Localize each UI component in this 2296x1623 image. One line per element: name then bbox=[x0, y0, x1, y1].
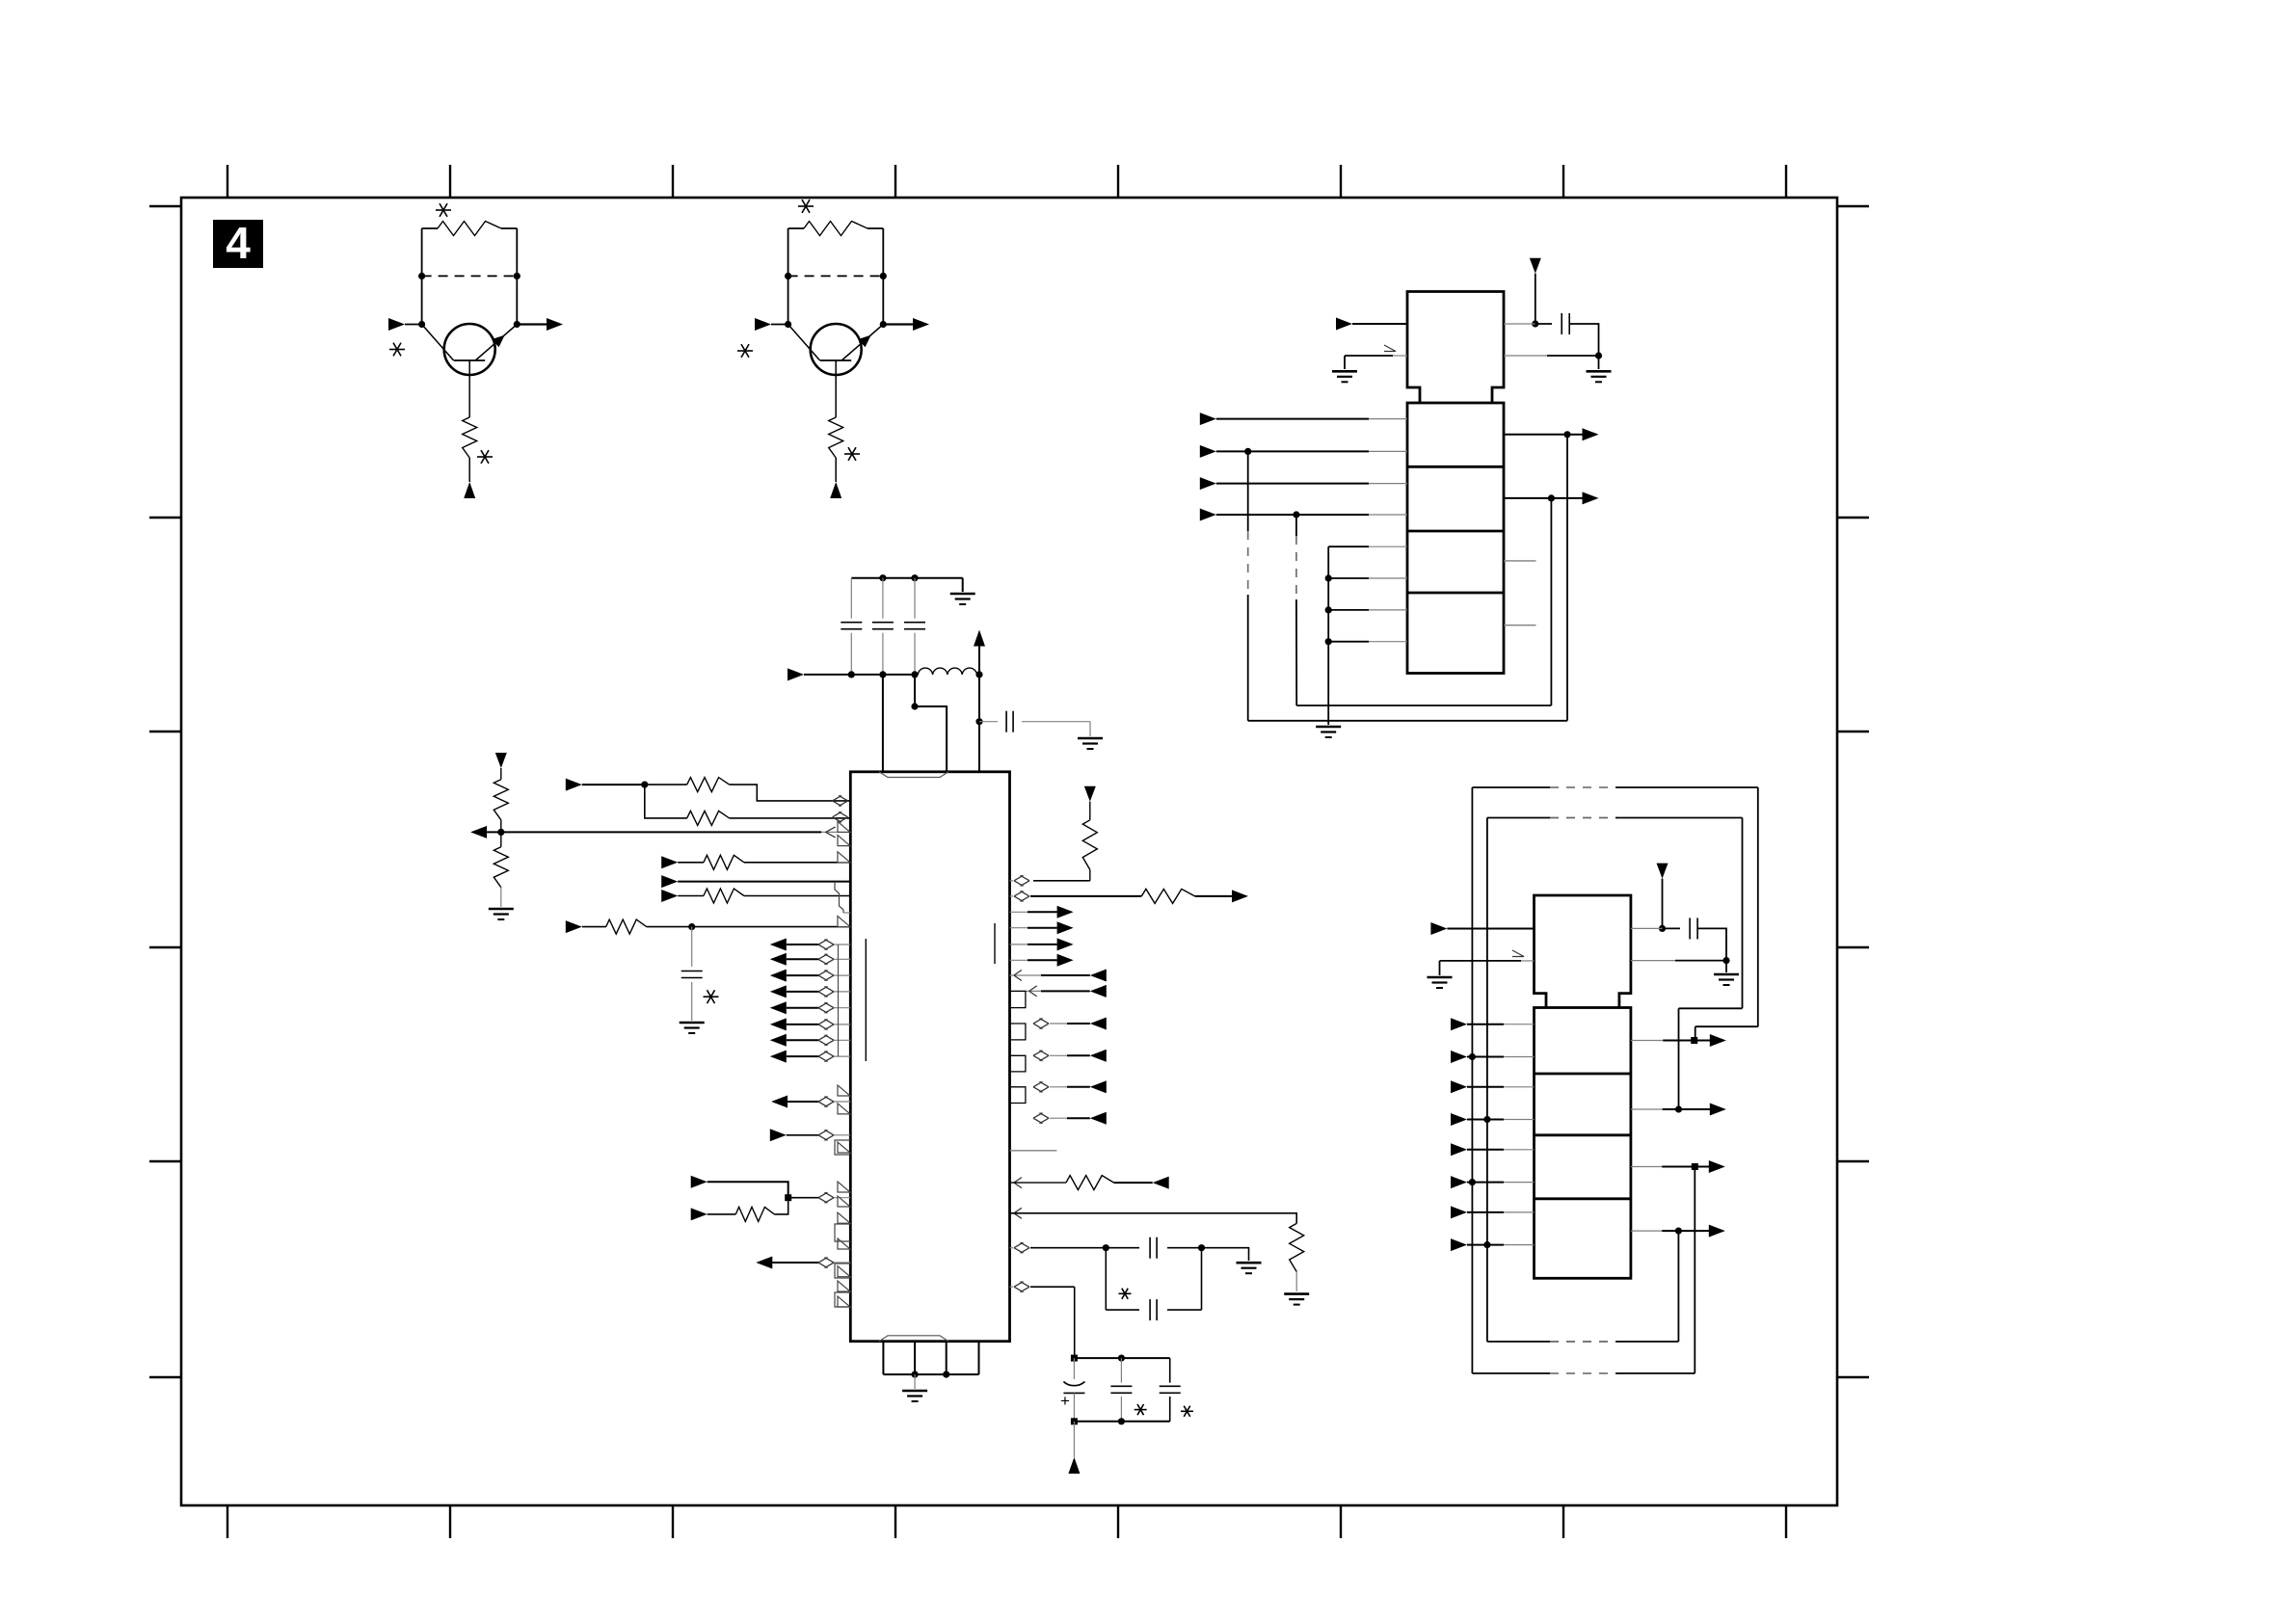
right input arrows stub rows bbox=[1010, 970, 1107, 998]
supply filter rail with electrolytic C6 and C7 C8 bbox=[1060, 1355, 1193, 1425]
CN1 input arrows (4) bbox=[1200, 412, 1407, 520]
CN2 right pin1 with capacitor C10 bbox=[1631, 918, 1730, 964]
CN2 output 2 bbox=[1631, 1104, 1726, 1116]
connector CN1 plug body bbox=[1407, 292, 1504, 404]
CN2 inner wrap loop bbox=[1487, 818, 1743, 1343]
long wire to resistor R13 and ground bbox=[1010, 1208, 1310, 1304]
input arrow C direct bbox=[661, 875, 850, 888]
input arrow A with resistor pair bbox=[566, 778, 851, 826]
transistor Q1 with base resistor network bbox=[388, 203, 563, 498]
left output arrow row16 bbox=[771, 1085, 850, 1108]
pull-up resistor with supply arrow bbox=[1010, 786, 1098, 887]
left output arrow bus (8 rows) bbox=[770, 939, 851, 1063]
IC bottom ground pins bbox=[883, 1342, 978, 1378]
CN2 input arrows (8) bbox=[1451, 1018, 1535, 1251]
B+ arrow at IC top bbox=[974, 630, 985, 678]
bypass capacitor C4 to ground bbox=[979, 711, 1103, 749]
connector CN1 socket body bbox=[1407, 403, 1504, 674]
svg-text:4: 4 bbox=[226, 218, 251, 268]
CN2 right pin2 to ground bbox=[1631, 961, 1739, 985]
input arrow B with resistor bbox=[661, 852, 850, 870]
CN2 output 3 bbox=[1631, 1160, 1725, 1173]
CN2 left pin2 to ground bbox=[1428, 950, 1535, 988]
crystal capacitor network bbox=[1010, 1237, 1262, 1320]
B+ arrow bottom bbox=[1068, 1422, 1080, 1474]
wire VCC pin vertical bbox=[975, 675, 982, 772]
right output arrows (4 rows) bbox=[1010, 906, 1074, 967]
CN1 right pin2 to ground bbox=[1504, 356, 1612, 382]
CN1 output 1 with feedback wrap bbox=[1504, 428, 1599, 721]
svg-text:+: + bbox=[1060, 1392, 1070, 1410]
output with series resistor R11 bbox=[1010, 889, 1249, 903]
transistor Q2 with base resistor network bbox=[737, 200, 929, 498]
connector CN2 plug body bbox=[1535, 895, 1631, 1008]
connector CN2 socket body bbox=[1535, 1008, 1631, 1279]
CN1 input arrow pin1 bbox=[1336, 318, 1407, 331]
supply input arrow and bus bbox=[788, 668, 919, 680]
input arrow row17 bbox=[770, 1129, 851, 1141]
capacitor C5 to ground with asterisk bbox=[680, 927, 719, 1033]
CN2 output 4 bbox=[1631, 1225, 1725, 1237]
left output arrow row19 bbox=[756, 1257, 850, 1269]
CN1 ground bus for section3 bbox=[1316, 546, 1407, 737]
CN1 left pin2 to ground bbox=[1332, 345, 1407, 382]
inductor L1 bbox=[918, 668, 976, 675]
input pair with resistor R10 bbox=[691, 1176, 851, 1222]
IC U1 body bbox=[850, 772, 1009, 1342]
ground under IC bbox=[902, 1374, 927, 1401]
CN1 output 2 with feedback wrap bbox=[1504, 492, 1599, 705]
supply arrow CN1 bbox=[1530, 258, 1541, 328]
decoupling capacitor rail with C1 C2 C3 bbox=[841, 574, 962, 675]
right input with resistor R12 bbox=[1010, 1176, 1169, 1190]
CN1 right pin1 with capacitor C9 bbox=[1504, 313, 1602, 359]
CN1 outer wrap loop bbox=[1248, 451, 1567, 720]
input arrow D with resistor bbox=[661, 889, 850, 903]
CN2 outer wrap loop bbox=[1472, 787, 1757, 1373]
right stub row13 bbox=[1010, 1150, 1057, 1152]
voltage divider with supply arrow bbox=[489, 753, 514, 919]
left edge pin marks bbox=[835, 836, 850, 1307]
right input arrows (4 rows) bbox=[1033, 1018, 1107, 1125]
wire pin vertical 3 bbox=[911, 675, 947, 772]
supply arrow CN2 bbox=[1657, 864, 1669, 932]
long output arrow row3 bbox=[470, 821, 850, 838]
wire pin vertical 2 bbox=[882, 675, 884, 772]
input arrow E with RC filter bbox=[566, 917, 851, 935]
CN1 right stubs bbox=[1504, 561, 1536, 625]
pin strap cascade left bbox=[835, 882, 850, 913]
CN1 inner wrap loop bbox=[1296, 515, 1552, 705]
page label 4 bbox=[213, 218, 263, 268]
ground for cap rail bbox=[950, 578, 975, 604]
CN2 output 1 bbox=[1631, 1034, 1726, 1047]
supply rail from pin row17 bbox=[1010, 1282, 1075, 1358]
CN2 input arrow pin1 bbox=[1430, 922, 1534, 935]
pin step links right edge bbox=[1010, 991, 1026, 1103]
